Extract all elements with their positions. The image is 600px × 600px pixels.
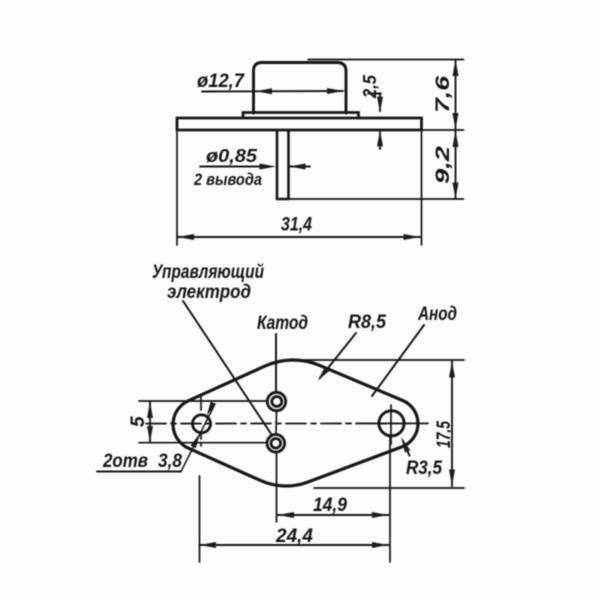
dimension 17,5 (flange height) <box>289 360 464 488</box>
mounting hole right <box>374 405 427 444</box>
horizontal center line (dash-dot) <box>146 422 428 424</box>
svg-text:17,5: 17,5 <box>434 421 455 448</box>
label Катод with leader <box>257 313 308 392</box>
svg-text:R8,5: R8,5 <box>348 312 386 333</box>
dimension 2,5 (brim height) <box>360 74 383 149</box>
cap brim <box>243 113 359 119</box>
svg-text:24,4: 24,4 <box>275 526 313 547</box>
control electrode pin (bottom view, double circle) <box>267 435 285 453</box>
extension line from cap top <box>308 59 464 61</box>
dimension Ø0,85 2 вывода (pin diameter callout) <box>193 146 310 189</box>
dimension 14,9 (pin to hole) <box>278 436 391 562</box>
label Управляющий электрод with leader <box>152 262 272 435</box>
dimension 7,6 (cap top to flange bottom) <box>433 60 459 131</box>
lead pin (side view) <box>277 130 289 199</box>
svg-text:2отв: 2отв <box>102 451 148 472</box>
label R3,5 with dashed leader arrow <box>401 437 442 479</box>
svg-text:электрод: электрод <box>167 282 251 303</box>
dimension 24,4 (hole spacing) <box>200 476 389 562</box>
extension below control pin <box>276 453 278 523</box>
label R8,5 with leader arrow <box>318 312 387 381</box>
svg-text:3,8: 3,8 <box>158 451 182 472</box>
svg-text:Катод: Катод <box>257 313 308 334</box>
svg-text:Управляющий: Управляющий <box>152 262 264 283</box>
svg-text:5: 5 <box>128 416 149 427</box>
label Анод with leader <box>372 304 457 396</box>
svg-text:ø12,7: ø12,7 <box>197 71 245 92</box>
extension line from flange bottom to the right <box>422 129 464 131</box>
svg-text:R3,5: R3,5 <box>406 458 442 479</box>
svg-text:2,5: 2,5 <box>360 74 380 99</box>
dimension 5 (pin spacing) <box>128 401 267 443</box>
dimension 31,4 (flange width) <box>177 132 422 245</box>
mounting hole left <box>193 397 211 446</box>
svg-text:9,2: 9,2 <box>433 145 454 184</box>
svg-text:14,9: 14,9 <box>313 495 347 516</box>
dimension 9,2 (flange bottom to pin end) <box>433 131 459 200</box>
extension line from pin bottom to the right <box>289 198 464 200</box>
flange outline bottom view (rounded rhombus) <box>173 360 418 486</box>
cap outline (side view) <box>254 63 347 114</box>
svg-text:Анод: Анод <box>417 304 457 325</box>
dimension Ø12,7 (cap diameter) <box>197 71 344 94</box>
cathode pin (bottom view, double circle) <box>267 392 285 410</box>
svg-text:ø0,85: ø0,85 <box>206 146 258 166</box>
label 2отв 3,8 with underline and leader arrows <box>97 402 216 472</box>
flange plate (side view) <box>177 118 422 130</box>
line between pins <box>275 411 278 434</box>
svg-text:7,6: 7,6 <box>433 75 454 113</box>
svg-text:2 вывода: 2 вывода <box>193 170 262 189</box>
svg-text:31,4: 31,4 <box>281 215 312 236</box>
